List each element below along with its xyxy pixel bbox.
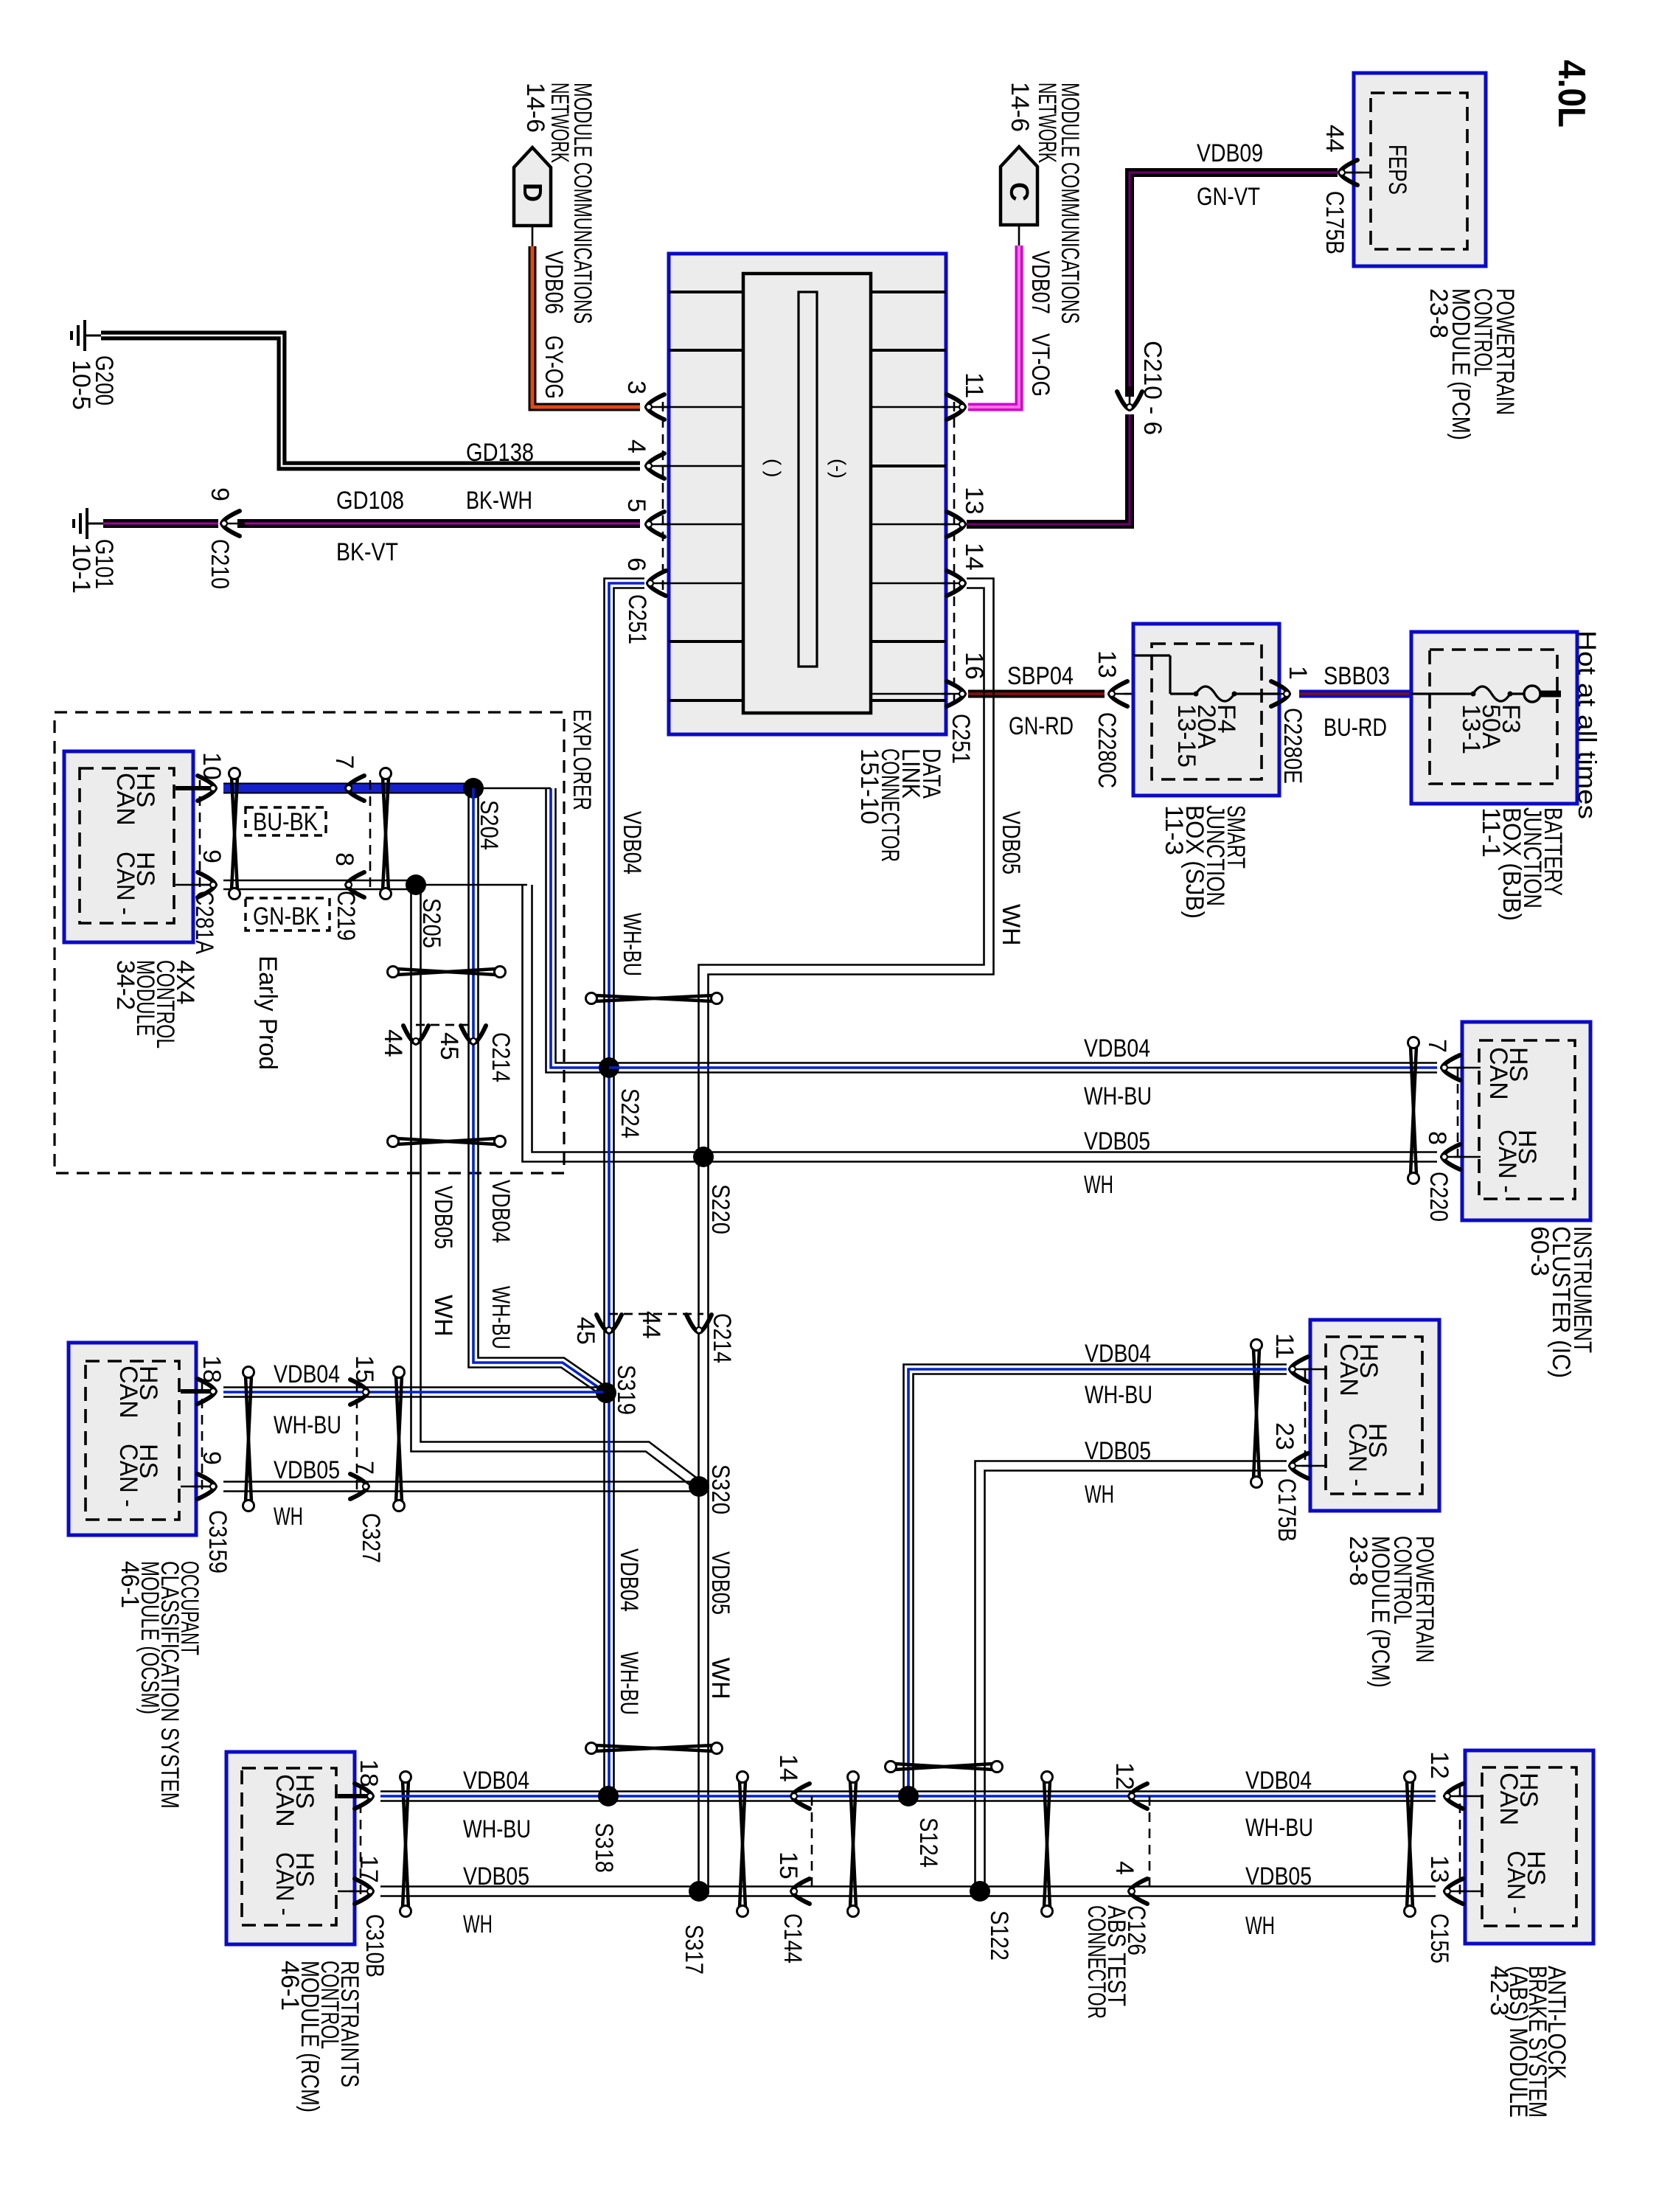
connector C2280E pin 1 bbox=[1266, 693, 1291, 695]
module OCCUPANT CLASSIFICATION SYSTEM MODULE (OCSM) 46-1 bbox=[69, 1343, 196, 1535]
svg-text:4.0L: 4.0L bbox=[1550, 60, 1593, 128]
svg-text:C: C bbox=[1004, 182, 1034, 201]
svg-text:C3159: C3159 bbox=[204, 1510, 232, 1573]
module BATTERY JUNCTION BOX (BJB) 11-1 bbox=[1411, 632, 1577, 804]
module PCM (FEPS) box bbox=[1354, 73, 1486, 266]
DLC pin 14 bbox=[871, 582, 946, 585]
connector C214 second crossing pins 45 44 bbox=[609, 1313, 703, 1315]
svg-text:13: 13 bbox=[1425, 1855, 1453, 1883]
wire GD138 BK-WH bbox=[101, 335, 640, 466]
svg-text:S318: S318 bbox=[590, 1823, 618, 1873]
connector C327 pin 15 arrow bbox=[350, 1380, 368, 1405]
BJB internal wiring and fuse F3 50A bbox=[1411, 692, 1473, 695]
svg-text:VDB09: VDB09 bbox=[1197, 139, 1263, 167]
svg-text:( ): ( ) bbox=[762, 459, 785, 477]
DLC pin 3 bbox=[669, 406, 743, 408]
connector C281A dashed bbox=[199, 780, 201, 894]
splice S318 bbox=[598, 1786, 619, 1806]
svg-text:S124: S124 bbox=[914, 1818, 942, 1868]
svg-text:WH-BU: WH-BU bbox=[274, 1411, 341, 1439]
OCSM pin 18 bbox=[181, 1389, 210, 1394]
wire VDB04 WH-BU to IC pin 7 bbox=[609, 1071, 1437, 1074]
svg-text:13: 13 bbox=[960, 487, 988, 515]
svg-text:VDB05: VDB05 bbox=[997, 811, 1025, 874]
twist symbol bbox=[396, 1376, 402, 1502]
svg-text:S319: S319 bbox=[612, 1365, 640, 1415]
wire VDB05 WH RCM to ABS bbox=[380, 1895, 1436, 1897]
wire VDB04 WH-BU RCM to ABS bbox=[380, 1800, 1436, 1802]
wire GD108 BK-VT bbox=[103, 519, 218, 528]
connector C327 dashed bbox=[356, 1382, 358, 1493]
svg-text:C219: C219 bbox=[332, 891, 360, 941]
svg-text:VDB04: VDB04 bbox=[274, 1360, 340, 1388]
svg-text:GN-BK: GN-BK bbox=[253, 902, 319, 931]
module 4X4 CONTROL MODULE 34-2 bbox=[64, 751, 193, 942]
connector C251 left dashed bbox=[662, 402, 664, 590]
svg-text:BK-WH: BK-WH bbox=[466, 487, 532, 515]
connector C219 pin 8 arrow bbox=[347, 872, 364, 897]
twist symbol bbox=[397, 1138, 496, 1144]
connector C126 ABS TEST CONNECTOR pins 12 4 bbox=[1149, 1796, 1151, 1891]
wire VDB07 VT-OG bbox=[1018, 225, 1020, 246]
svg-text:S122: S122 bbox=[985, 1910, 1013, 1961]
svg-text:WH-BU: WH-BU bbox=[463, 1815, 531, 1843]
wire BU-BK bbox=[223, 783, 472, 794]
svg-text:VDB05: VDB05 bbox=[1084, 1127, 1150, 1155]
svg-text:WH: WH bbox=[1085, 1481, 1114, 1509]
wire VDB04 WH-BU from DLC pin 6 bbox=[605, 579, 645, 1797]
connector C310B dashed bbox=[360, 1787, 362, 1899]
4X4 pin 10 HS CAN wire bbox=[175, 786, 210, 790]
ABS pin 12 bbox=[1457, 1795, 1484, 1798]
svg-text:D: D bbox=[518, 183, 548, 202]
svg-text:C214: C214 bbox=[708, 1313, 736, 1363]
svg-text:8: 8 bbox=[330, 852, 358, 866]
module ANTI-LOCK BRAKE SYSTEM (ABS) MODULE 42-3 bbox=[1465, 1750, 1593, 1944]
svg-text:45: 45 bbox=[435, 1032, 463, 1060]
svg-text:44: 44 bbox=[1321, 125, 1349, 153]
4X4 pin 9 HS CAN- wire bbox=[175, 884, 210, 886]
svg-text:VDB04: VDB04 bbox=[618, 811, 646, 874]
wire VDB05 branch S205 to S220 bbox=[523, 885, 695, 1162]
svg-text:VDB04: VDB04 bbox=[463, 1767, 529, 1795]
svg-text:WH-BU: WH-BU bbox=[618, 913, 646, 976]
svg-text:BU-RD: BU-RD bbox=[1324, 714, 1387, 742]
svg-text:11: 11 bbox=[1270, 1333, 1298, 1359]
svg-text:7: 7 bbox=[350, 1461, 378, 1475]
wire VDB05 WH OCSM to S320 bbox=[223, 1490, 696, 1492]
svg-text:Hot at all times: Hot at all times bbox=[1573, 630, 1601, 819]
svg-text:VDB06: VDB06 bbox=[540, 251, 568, 314]
connector C2280C pin 13 bbox=[1107, 693, 1133, 695]
svg-text:VDB05: VDB05 bbox=[463, 1863, 529, 1891]
svg-text:18: 18 bbox=[198, 1355, 226, 1383]
splice S220 bbox=[693, 1147, 714, 1167]
twist symbol bbox=[595, 1745, 713, 1751]
svg-text:C251: C251 bbox=[947, 714, 975, 764]
svg-text:WH: WH bbox=[706, 1658, 734, 1700]
pin 44 FEPS bbox=[1342, 172, 1371, 174]
svg-text:18: 18 bbox=[355, 1759, 383, 1787]
svg-text:WH: WH bbox=[429, 1295, 457, 1337]
connector C175B dashed bbox=[1304, 1369, 1307, 1466]
svg-text:12: 12 bbox=[1110, 1762, 1138, 1790]
DLC inner shell bbox=[743, 274, 871, 713]
twist symbol bbox=[595, 995, 713, 1001]
svg-text:WH-BU: WH-BU bbox=[615, 1652, 643, 1715]
svg-text:GY-OG: GY-OG bbox=[540, 335, 568, 399]
svg-text:23: 23 bbox=[1270, 1422, 1298, 1450]
svg-text:SBB03: SBB03 bbox=[1324, 662, 1390, 690]
svg-text:15: 15 bbox=[350, 1355, 378, 1383]
ground G200 bbox=[83, 320, 86, 351]
module INSTRUMENT CLUSTER (IC) 60-3 bbox=[1462, 1022, 1590, 1220]
svg-text:9: 9 bbox=[206, 487, 234, 501]
connector C210 pin 9 inline bbox=[220, 523, 245, 525]
svg-text:C175B: C175B bbox=[1321, 191, 1349, 254]
label BU-BK dashed box bbox=[246, 807, 326, 835]
svg-text:45: 45 bbox=[571, 1317, 599, 1345]
svg-text:C214: C214 bbox=[487, 1032, 515, 1082]
wire VDB04 WH-BU from PCM 11 bbox=[904, 1365, 1287, 1797]
twist symbol bbox=[1407, 1781, 1413, 1907]
wire GN-BK bbox=[223, 888, 414, 891]
wire VDB05 WH from PCM 23 bbox=[975, 1461, 1287, 1892]
connector C220 dashed bbox=[1457, 1068, 1459, 1157]
svg-text:14: 14 bbox=[774, 1754, 802, 1782]
splice S122 bbox=[970, 1881, 990, 1902]
svg-text:C281A: C281A bbox=[190, 891, 218, 954]
svg-text:WH: WH bbox=[997, 904, 1025, 946]
svg-text:WH: WH bbox=[1084, 1171, 1113, 1199]
splice S124 bbox=[898, 1786, 919, 1806]
connector C219 pin 7 arrow bbox=[347, 776, 364, 801]
svg-text:VDB05: VDB05 bbox=[706, 1551, 734, 1615]
DLC row divider lines bbox=[669, 291, 743, 293]
svg-text:14-6: 14-6 bbox=[521, 83, 549, 133]
svg-text:VDB05: VDB05 bbox=[274, 1456, 340, 1484]
splice S224 bbox=[599, 1057, 619, 1078]
wire VDB04 WH-BU OCSM to S319 bbox=[223, 1396, 603, 1398]
DLC pin 4 bbox=[669, 465, 743, 467]
svg-text:EXPLORER: EXPLORER bbox=[568, 709, 596, 810]
ground G101 bbox=[86, 508, 88, 539]
svg-text:(-): (-) bbox=[827, 459, 849, 479]
wire SBB03 BU-RD bbox=[1299, 690, 1411, 698]
connector C3159 dashed bbox=[201, 1382, 204, 1493]
svg-text:VDB05: VDB05 bbox=[1085, 1437, 1151, 1465]
connector C251 right dashed bbox=[953, 402, 956, 702]
svg-text:8: 8 bbox=[1423, 1131, 1451, 1145]
svg-text:VDB04: VDB04 bbox=[615, 1548, 643, 1612]
DLC pin 11 bbox=[871, 406, 946, 408]
svg-text:S220: S220 bbox=[706, 1184, 734, 1234]
svg-text:GD138: GD138 bbox=[466, 439, 534, 467]
svg-text:FEPS: FEPS bbox=[1383, 145, 1411, 195]
splice S204 bbox=[463, 778, 484, 799]
connector C219 dashed bbox=[369, 780, 372, 894]
OCSM pin 9 bbox=[181, 1486, 210, 1488]
svg-text:WH: WH bbox=[274, 1503, 303, 1531]
DLC pin 6 bbox=[669, 582, 743, 585]
svg-text:10-1: 10-1 bbox=[67, 543, 95, 594]
svg-text:15: 15 bbox=[774, 1851, 802, 1879]
IC pin 8 bbox=[1454, 1156, 1481, 1158]
svg-text:C210: C210 bbox=[206, 539, 234, 589]
twist symbol bbox=[1044, 1781, 1050, 1907]
svg-text:WH: WH bbox=[463, 1910, 493, 1938]
twist symbol bbox=[894, 1764, 993, 1770]
svg-text:BK-VT: BK-VT bbox=[336, 538, 398, 566]
svg-text:14-6: 14-6 bbox=[1006, 82, 1034, 132]
wire VDB09 GN-VT bbox=[1130, 173, 1338, 397]
svg-text:C220: C220 bbox=[1425, 1172, 1453, 1222]
svg-text:C155: C155 bbox=[1425, 1913, 1453, 1964]
module SMART JUNCTION BOX (SJB) 11-3 bbox=[1133, 624, 1279, 796]
svg-text:WH-BU: WH-BU bbox=[1245, 1814, 1313, 1842]
svg-text:WH-BU: WH-BU bbox=[1084, 1082, 1152, 1110]
svg-text:VDB05: VDB05 bbox=[429, 1186, 457, 1249]
svg-text:GN-VT: GN-VT bbox=[1197, 183, 1260, 211]
svg-text:VDB04: VDB04 bbox=[1085, 1340, 1151, 1368]
twist symbol bbox=[232, 777, 237, 890]
svg-text:44: 44 bbox=[637, 1311, 665, 1339]
wire VDB05 WH from DLC pin 14 bbox=[699, 588, 984, 1895]
off-page connector D MODULE COMMUNICATIONS NETWORK 14-6 bbox=[514, 147, 551, 226]
svg-text:C251: C251 bbox=[623, 594, 651, 644]
twist symbol bbox=[383, 777, 389, 890]
module DATA LINK CONNECTOR 151-10 box bbox=[669, 254, 946, 734]
svg-text:VDB04: VDB04 bbox=[1245, 1767, 1312, 1795]
svg-text:13: 13 bbox=[1093, 650, 1121, 678]
twist symbol bbox=[740, 1781, 745, 1907]
svg-text:C175B: C175B bbox=[1273, 1478, 1301, 1542]
svg-text:4: 4 bbox=[622, 439, 650, 453]
DLC pin 13 bbox=[871, 524, 946, 526]
svg-text:GD108: GD108 bbox=[336, 487, 404, 515]
svg-text:44: 44 bbox=[379, 1029, 407, 1057]
twist symbol bbox=[1253, 1349, 1259, 1478]
svg-text:12: 12 bbox=[1425, 1751, 1453, 1779]
svg-text:5: 5 bbox=[622, 498, 650, 512]
power feed symbol bbox=[1524, 686, 1540, 702]
svg-text:S317: S317 bbox=[680, 1924, 708, 1975]
svg-text:10: 10 bbox=[198, 752, 226, 780]
RCM pin 18 bbox=[338, 1794, 367, 1798]
svg-text:Early Prod: Early Prod bbox=[254, 956, 282, 1070]
svg-text:WH-BU: WH-BU bbox=[1085, 1381, 1152, 1409]
connector C327 pin 7 arrow bbox=[350, 1474, 368, 1499]
svg-text:C144: C144 bbox=[779, 1913, 807, 1964]
module RESTRAINTS CONTROL MODULE (RCM) 46-1 bbox=[226, 1752, 355, 1944]
module POWERTRAIN CONTROL MODULE (PCM) 23-8 box bbox=[1310, 1320, 1439, 1511]
svg-text:C2280E: C2280E bbox=[1279, 708, 1307, 784]
svg-text:4: 4 bbox=[1110, 1861, 1138, 1875]
RCM pin 17 bbox=[338, 1891, 367, 1893]
PCM pin 23 bbox=[1302, 1465, 1327, 1467]
svg-text:6: 6 bbox=[622, 557, 650, 571]
twist symbol bbox=[850, 1781, 856, 1907]
connector C210 pin 6 inline bbox=[1129, 386, 1131, 411]
svg-text:VDB07: VDB07 bbox=[1026, 251, 1054, 314]
splice S205 bbox=[406, 874, 426, 895]
svg-text:C2280C: C2280C bbox=[1093, 712, 1121, 788]
svg-text:WH: WH bbox=[1245, 1912, 1275, 1940]
EXPLORER dashed box bbox=[55, 712, 564, 1173]
twist symbol bbox=[246, 1376, 251, 1502]
svg-text:9: 9 bbox=[198, 849, 226, 863]
ABS pin 13 bbox=[1457, 1891, 1484, 1893]
svg-text:C310B: C310B bbox=[361, 1914, 389, 1978]
DLC pin 5 bbox=[669, 524, 743, 526]
SJB internal wiring and fuse F4 20A bbox=[1133, 654, 1170, 656]
svg-text:C327: C327 bbox=[357, 1513, 385, 1563]
wire SBP04 GN-RD bbox=[968, 690, 1105, 698]
twist symbol bbox=[403, 1781, 408, 1907]
IC pin 7 bbox=[1454, 1067, 1481, 1069]
svg-text:VDB04: VDB04 bbox=[487, 1180, 515, 1243]
PCM pin 11 bbox=[1302, 1368, 1327, 1371]
wire VDB04 branch S204 to S224 bbox=[546, 788, 605, 1073]
svg-text:WH-BU: WH-BU bbox=[487, 1286, 515, 1349]
svg-text:1: 1 bbox=[1284, 666, 1312, 680]
wire VDB05 WH vertical from S205 bbox=[411, 885, 694, 1487]
wire VDB04 WH-BU vertical from S204 bbox=[469, 788, 601, 1394]
svg-text:S320: S320 bbox=[706, 1464, 734, 1514]
svg-text:10-5: 10-5 bbox=[67, 360, 95, 410]
splice S320 bbox=[689, 1476, 709, 1497]
svg-text:3: 3 bbox=[622, 380, 650, 394]
off-page connector C MODULE COMMUNICATIONS NETWORK 14-6 bbox=[1001, 147, 1037, 225]
svg-text:VDB04: VDB04 bbox=[1084, 1034, 1150, 1062]
svg-text:17: 17 bbox=[355, 1855, 383, 1883]
label GN-BK dashed box bbox=[246, 898, 330, 931]
connector C155 dashed bbox=[1459, 1787, 1461, 1899]
splice S317 bbox=[689, 1881, 709, 1902]
DLC pin 16 bbox=[871, 693, 946, 695]
twist symbol bbox=[1411, 1046, 1416, 1175]
wire VDB05 WH to IC pin 8 bbox=[703, 1161, 1437, 1163]
svg-text:7: 7 bbox=[1423, 1039, 1451, 1053]
svg-text:S224: S224 bbox=[616, 1088, 644, 1138]
svg-text:BU-BK: BU-BK bbox=[253, 808, 318, 836]
splice S319 bbox=[596, 1382, 616, 1403]
svg-text:GN-RD: GN-RD bbox=[1009, 712, 1074, 740]
wire VDB06 GY-OG bbox=[532, 226, 534, 246]
connector C144 pins 14 15 bbox=[811, 1796, 813, 1891]
svg-text:SBP04: SBP04 bbox=[1007, 662, 1074, 690]
svg-text:C210 - 6: C210 - 6 bbox=[1138, 341, 1166, 435]
svg-text:VDB05: VDB05 bbox=[1245, 1863, 1312, 1891]
svg-text:11: 11 bbox=[960, 372, 988, 398]
svg-text:14: 14 bbox=[960, 543, 988, 571]
svg-text:VT-OG: VT-OG bbox=[1026, 333, 1054, 397]
twist symbol bbox=[397, 969, 496, 975]
svg-text:7: 7 bbox=[330, 755, 358, 769]
connector C214 pins 44 45 dashed crossing bbox=[416, 1024, 473, 1026]
